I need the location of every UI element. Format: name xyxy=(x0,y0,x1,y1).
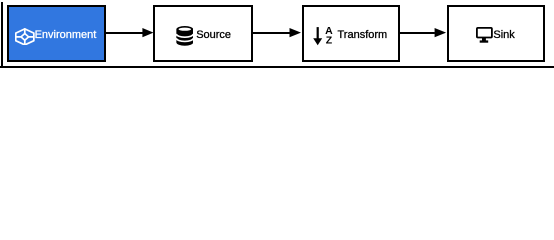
box Transform xyxy=(302,5,399,62)
arrow 3 xyxy=(399,27,447,39)
icon sort A-Z down arrow xyxy=(312,26,334,46)
arrow 2 xyxy=(253,27,301,39)
label Source xyxy=(196,30,231,41)
arrow 1 xyxy=(106,27,154,39)
frame bottom line xyxy=(0,66,554,68)
svg-text:Z: Z xyxy=(326,34,333,45)
label Sink xyxy=(493,30,514,41)
icon monitor xyxy=(476,27,493,45)
frame left line xyxy=(1,2,3,68)
box Environment xyxy=(7,5,106,62)
label Transform xyxy=(338,30,388,41)
icon database xyxy=(176,26,194,46)
box Sink xyxy=(447,5,545,62)
label Environment xyxy=(35,30,97,41)
box Source xyxy=(153,5,253,62)
icon environment cube xyxy=(15,28,35,46)
